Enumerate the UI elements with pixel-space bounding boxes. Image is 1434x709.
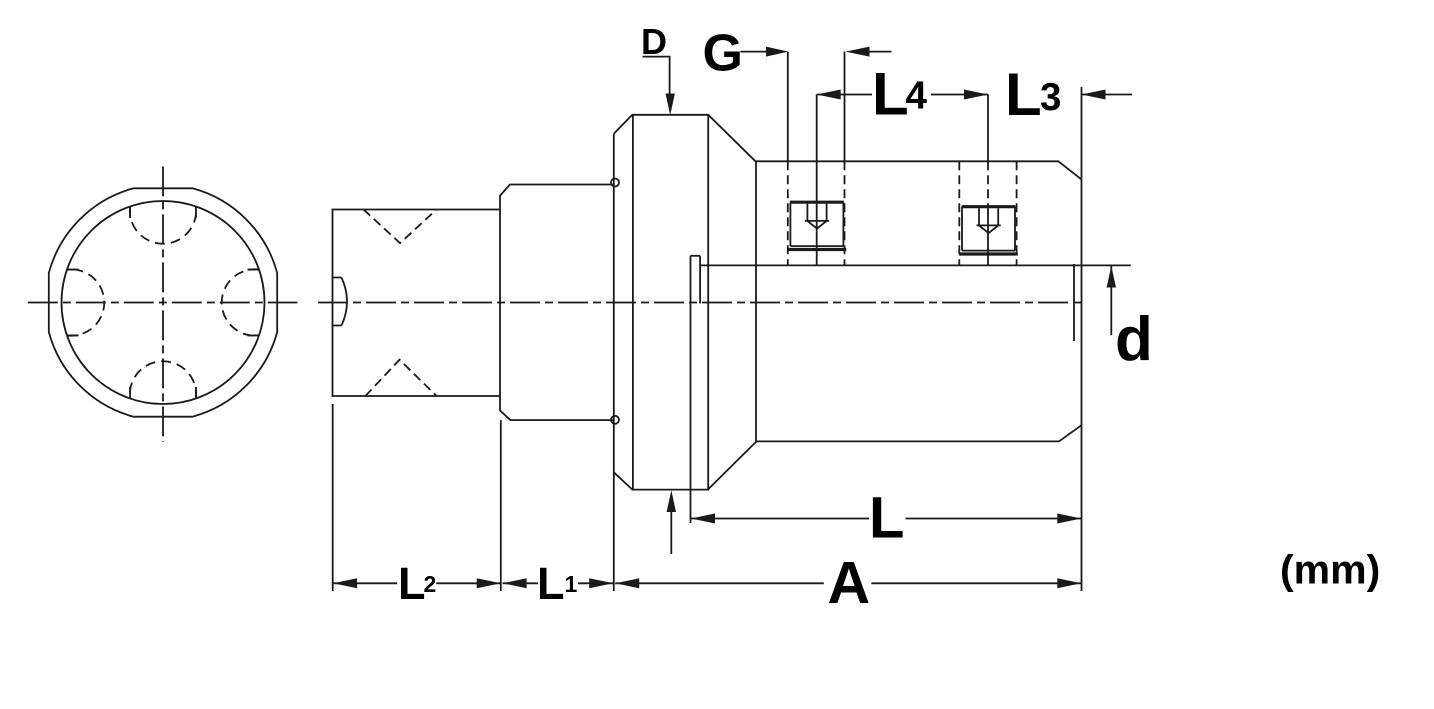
bore top line: [700, 264, 1131, 266]
arrowhead A left: [615, 578, 639, 588]
svg-text:L: L: [537, 558, 565, 609]
front view outer profile with four flats: [49, 188, 277, 416]
arrowhead d up: [1107, 266, 1116, 288]
dimension L3 tail: [1082, 94, 1133, 96]
hole right slot edges: [248, 270, 260, 336]
hole top dashed circle: [130, 207, 196, 244]
arrowhead L4 left: [817, 90, 841, 100]
svg-text:L: L: [869, 485, 904, 550]
bore end edge: [1073, 264, 1075, 341]
set screw 2: [977, 208, 1001, 233]
svg-text:D: D: [641, 21, 667, 62]
front view horizontal centerline: [28, 302, 298, 304]
dimension L1 line: [503, 582, 614, 584]
dimension d line: [1110, 266, 1112, 335]
dimension G leader: [740, 51, 766, 53]
dimension G extension left: [787, 52, 789, 162]
dimension D leader bottom: [670, 511, 672, 554]
flange face inner edge: [632, 115, 634, 490]
body outline: [756, 161, 1082, 441]
step corner circle top: [611, 179, 619, 187]
flange left face and extension line: [613, 134, 615, 591]
flange-body cone top: [708, 115, 755, 162]
svg-text:(mm): (mm): [1280, 547, 1380, 593]
svg-text:G: G: [703, 24, 743, 82]
front view vertical centerline: [162, 166, 164, 442]
arrowhead L1 right: [589, 578, 613, 588]
body right face and extension line: [1081, 87, 1083, 591]
arrowhead L1 left: [503, 578, 527, 588]
screw hole 2 dashed sides: [959, 161, 1016, 265]
screw hole 2 box: [962, 250, 1015, 252]
screw hole 1 center line: [816, 95, 818, 266]
hole right dashed circle: [222, 269, 259, 335]
shank drive recess hidden V bottom: [365, 360, 436, 396]
shank center hole arc: [342, 278, 348, 326]
arrowhead A right: [1057, 578, 1081, 588]
hole bottom slot edges: [130, 387, 196, 399]
flange-body cone bottom: [708, 441, 757, 489]
flange outline: [614, 115, 708, 490]
dimension D leader top: [643, 57, 670, 94]
hole left dashed circle: [67, 269, 104, 335]
spigot bar right edge: [699, 256, 701, 304]
spigot bar left edge and L extension: [690, 256, 692, 523]
arrowhead L3 left: [1082, 90, 1106, 100]
hole bottom dashed circle: [130, 361, 196, 398]
hole left slot edges: [67, 270, 79, 336]
dimension L2 line: [333, 582, 501, 584]
svg-text:3: 3: [1040, 76, 1061, 119]
arrowhead G left: [846, 47, 870, 57]
shank outline: [333, 210, 501, 397]
svg-text:2: 2: [424, 571, 437, 597]
spigot bar top: [691, 255, 701, 257]
dimension A line: [615, 582, 1081, 584]
arrowhead D down: [666, 94, 675, 116]
screw hole 2 center line hidden part: [987, 161, 989, 206]
shank drive recess hidden V top: [364, 210, 437, 244]
dimension G right tail: [866, 51, 892, 53]
arrowhead G right: [766, 47, 788, 57]
dimension L line: [691, 518, 1081, 520]
dimension L4 line: [817, 94, 988, 96]
step corner circle bottom: [611, 416, 619, 424]
arrowhead L4 right: [964, 90, 988, 100]
arrowhead D up: [667, 490, 676, 512]
arrowhead L2 right: [477, 578, 501, 588]
arrowhead L right: [1057, 514, 1081, 524]
shank center hole ticks: [332, 278, 342, 326]
side view centerline: [318, 302, 1086, 304]
extension line shank left: [332, 404, 334, 591]
set screw 1: [805, 204, 829, 229]
screw hole 1 dashed sides: [788, 161, 845, 265]
svg-text:1: 1: [565, 571, 578, 597]
arrowhead L2 left: [333, 578, 357, 588]
hole top slot edges: [130, 207, 196, 219]
svg-text:4: 4: [906, 74, 928, 117]
svg-text:L: L: [1005, 61, 1042, 128]
arrowhead L left: [691, 514, 715, 524]
svg-text:d: d: [1115, 305, 1153, 374]
svg-text:L: L: [398, 558, 426, 609]
step outline: [500, 185, 614, 421]
svg-text:A: A: [828, 550, 871, 616]
front view inner circle: [62, 201, 265, 404]
extension line step left: [500, 420, 502, 591]
svg-text:L: L: [872, 61, 909, 128]
screw hole 1 box: [790, 245, 843, 247]
screw hole 2 center line: [987, 95, 989, 266]
dimension G extension right: [844, 52, 846, 162]
